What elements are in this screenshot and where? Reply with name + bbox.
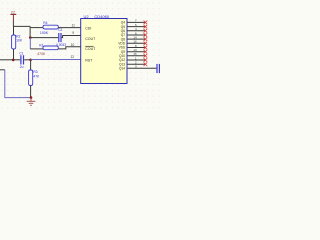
wire vertical to node N1 — [29, 26, 31, 37]
pin Q10 — [119, 52, 147, 58]
junction dot node B — [29, 59, 32, 62]
junction dot — [12, 59, 15, 62]
pin name COUT inverted — [85, 45, 93, 47]
svg-text:47K: 47K — [33, 74, 40, 78]
wire stub to R4 — [30, 27, 43, 29]
svg-text:470K: 470K — [37, 52, 46, 56]
svg-text:11: 11 — [72, 23, 76, 27]
node N1 junction — [29, 36, 32, 39]
wire power rail horizontal — [13, 25, 30, 27]
pin VSS — [119, 44, 148, 50]
pin Q6 — [121, 27, 147, 33]
wire N1 to C2 — [30, 37, 58, 39]
pin Q13 — [119, 61, 147, 67]
svg-text:CDI: CDI — [85, 27, 91, 31]
pin Q9 — [121, 48, 147, 54]
resistor R2 vertical left — [12, 26, 23, 59]
svg-text:C2: C2 — [58, 28, 62, 32]
wire node B to pin 12 — [31, 59, 81, 61]
svg-text:R4: R4 — [43, 21, 47, 25]
svg-text:RST: RST — [85, 58, 93, 62]
svg-text:R1: R1 — [39, 43, 43, 47]
resistor R1 horizontal — [37, 43, 58, 56]
resistor R4 — [40, 21, 58, 35]
pin Q4 — [121, 19, 147, 25]
power port +12 — [10, 11, 16, 27]
svg-text:100K: 100K — [40, 31, 49, 35]
junction dot ground node — [30, 96, 33, 99]
bottom reset net wire — [0, 59, 13, 61]
pin Q7 — [121, 31, 147, 37]
wire C2 to pin 9 — [62, 36, 81, 38]
svg-text:12: 12 — [71, 55, 75, 59]
svg-text:C1: C1 — [19, 52, 23, 56]
svg-text:10K: 10K — [16, 39, 23, 43]
wire N1 down to R1 — [29, 38, 31, 49]
ground symbol — [27, 98, 36, 106]
pin Q12 — [119, 56, 147, 62]
pin VDD — [118, 40, 147, 46]
background — [0, 0, 160, 110]
svg-text:9: 9 — [72, 31, 74, 35]
wire dot to C1 — [13, 59, 20, 61]
wire C1 to junction — [24, 59, 30, 61]
svg-text:COUT: COUT — [85, 37, 96, 41]
ground return wire left — [0, 69, 5, 71]
capacitor C3 at right edge — [156, 64, 160, 73]
svg-text:2u: 2u — [20, 65, 24, 69]
svg-text:COUT: COUT — [85, 47, 96, 51]
resistor R3 vertical — [29, 60, 40, 98]
pin Q8 — [121, 35, 147, 41]
pin Q5 — [121, 23, 147, 29]
svg-text:10: 10 — [71, 43, 75, 47]
IC U2 CD4060 — [81, 14, 127, 84]
capacitor C2 — [56, 28, 66, 47]
wire R1 to pin 10 — [58, 47, 80, 49]
wire R4 to pin 11 — [58, 27, 80, 29]
svg-text:Q14: Q14 — [119, 67, 125, 71]
capacitor C1 — [19, 52, 24, 70]
pin Q14 — [119, 65, 156, 71]
